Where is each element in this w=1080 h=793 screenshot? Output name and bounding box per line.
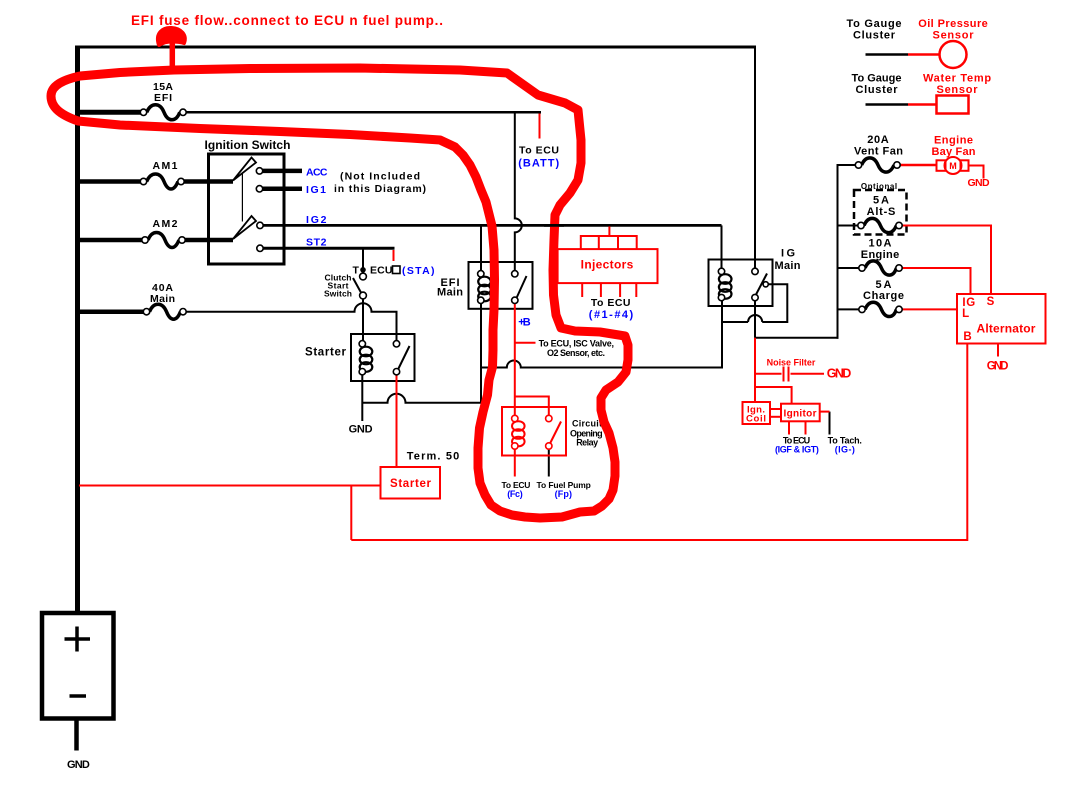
svg-text:in this Diagram): in this Diagram) (334, 183, 426, 195)
svg-text:ECU: ECU (370, 265, 393, 277)
svg-text:GND: GND (67, 759, 90, 771)
svg-text:Vent Fan: Vent Fan (854, 146, 903, 158)
svg-text:(IG-): (IG-) (835, 445, 855, 455)
svg-text:To ECU: To ECU (519, 145, 559, 157)
svg-text:Switch: Switch (324, 289, 352, 299)
svg-text:Cluster: Cluster (853, 30, 896, 42)
svg-text:GND: GND (349, 424, 373, 436)
svg-text:(#1-#4): (#1-#4) (589, 309, 634, 321)
svg-text:ST2: ST2 (306, 237, 327, 249)
svg-text:Coil: Coil (746, 414, 766, 425)
svg-text:L: L (962, 308, 969, 320)
svg-text:5A: 5A (873, 195, 889, 207)
svg-text:Term. 50: Term. 50 (407, 451, 460, 463)
svg-text:Circuit: Circuit (572, 419, 602, 429)
svg-text:Engine: Engine (861, 249, 900, 261)
svg-text:Relay: Relay (576, 438, 598, 448)
svg-text:(Not Included: (Not Included (340, 171, 420, 183)
svg-text:Sensor: Sensor (933, 30, 975, 42)
svg-text:Alt-S: Alt-S (867, 206, 896, 218)
svg-text:Charge: Charge (863, 290, 904, 302)
svg-text:20A: 20A (867, 134, 889, 146)
svg-text:M: M (949, 161, 957, 171)
svg-text:Starter: Starter (390, 478, 432, 490)
svg-text:Bay Fan: Bay Fan (932, 146, 976, 158)
svg-text:Cluster: Cluster (856, 84, 899, 96)
svg-text:To ECU: To ECU (591, 297, 631, 309)
svg-text:Alternator: Alternator (977, 322, 1036, 336)
svg-text:(BATT): (BATT) (518, 158, 559, 170)
svg-text:Noise Filter: Noise Filter (767, 358, 816, 368)
svg-text:Starter: Starter (305, 347, 347, 359)
svg-text:(Fc): (Fc) (507, 489, 522, 499)
svg-text:To ECU, ISC Valve,: To ECU, ISC Valve, (539, 339, 614, 349)
svg-text:GND: GND (827, 367, 852, 381)
svg-text:Main: Main (150, 293, 175, 305)
svg-text:AM2: AM2 (153, 218, 178, 230)
svg-text:ACC: ACC (306, 167, 328, 179)
svg-text:10A: 10A (869, 238, 892, 250)
svg-text:Oil Pressure: Oil Pressure (918, 18, 988, 30)
svg-text:(STA): (STA) (402, 265, 435, 277)
svg-text:+B: +B (518, 317, 531, 329)
svg-text:Ignitor: Ignitor (784, 409, 817, 420)
svg-text:B: B (963, 331, 971, 343)
svg-text:Optional: Optional (861, 182, 897, 191)
svg-text:(Fp): (Fp) (555, 489, 572, 499)
svg-text:GND: GND (967, 177, 990, 189)
svg-text:Main: Main (775, 260, 801, 272)
svg-text:Water Temp: Water Temp (923, 73, 991, 85)
svg-text:AM1: AM1 (153, 160, 178, 172)
svg-text:Sensor: Sensor (937, 84, 979, 96)
svg-text:GND: GND (987, 361, 1009, 373)
svg-text:EFI: EFI (154, 92, 172, 104)
svg-text:S: S (987, 296, 995, 308)
svg-text:EFI fuse flow..connect to ECU: EFI fuse flow..connect to ECU n fuel pum… (131, 13, 443, 28)
svg-text:To Gauge: To Gauge (846, 18, 901, 30)
svg-text:IG: IG (781, 248, 795, 260)
svg-text:Main: Main (437, 287, 463, 299)
svg-text:To Gauge: To Gauge (852, 73, 902, 85)
svg-text:Engine: Engine (934, 135, 973, 147)
svg-text:Ignition Switch: Ignition Switch (205, 138, 291, 152)
svg-text:(IGF & IGT): (IGF & IGT) (775, 445, 819, 455)
svg-text:Injectors: Injectors (581, 258, 634, 272)
svg-text:T: T (353, 265, 360, 277)
svg-text:O2 Sensor, etc.: O2 Sensor, etc. (547, 348, 605, 358)
